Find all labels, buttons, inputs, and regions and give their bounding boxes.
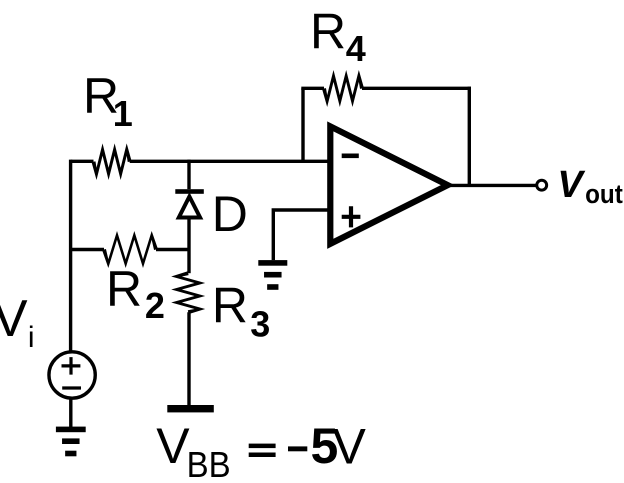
output terminal circle — [537, 180, 547, 190]
VBB supply bar — [167, 405, 214, 412]
label R2 — [106, 261, 165, 326]
wire output — [447, 184, 537, 187]
wire R4 branch left vertical — [301, 88, 304, 161]
svg-text:3: 3 — [250, 304, 270, 345]
svg-text:V: V — [0, 290, 28, 348]
wire diode branch vertical top — [187, 160, 190, 190]
wire Vi source to ground — [69, 398, 72, 427]
op-amp U1 triangle — [330, 126, 447, 243]
svg-text:R: R — [310, 3, 346, 59]
svg-text:V: V — [156, 418, 190, 474]
svg-text:1: 1 — [113, 93, 133, 134]
svg-text:BB: BB — [187, 444, 231, 483]
svg-text:R: R — [106, 261, 142, 317]
label Vout — [557, 164, 622, 209]
voltage source minus sign — [62, 386, 81, 389]
svg-text:V: V — [333, 418, 367, 474]
wire R2 row horizontal — [71, 248, 189, 251]
resistor R2 — [102, 231, 158, 268]
diode D cathode bar — [175, 189, 204, 194]
svg-text:V: V — [557, 164, 585, 206]
resistor R3 vertical — [171, 271, 205, 314]
op-amp plus input symbol — [342, 206, 361, 227]
wire diode to R3 — [187, 220, 190, 274]
label VBB = -5V — [156, 418, 366, 483]
svg-text:D: D — [212, 186, 248, 242]
wire main horizontal from Vi branch to op-amp minus input — [71, 160, 331, 163]
svg-text:2: 2 — [145, 285, 165, 326]
wire R4 top horizontal left — [301, 87, 324, 90]
svg-text:i: i — [28, 321, 35, 354]
diode D triangle — [179, 197, 200, 218]
wire plus input — [273, 210, 330, 260]
resistor R4 — [322, 70, 364, 107]
op-amp minus input symbol — [342, 154, 359, 159]
resistor R1 — [92, 143, 132, 180]
wire R4 top horizontal right — [362, 87, 471, 90]
label R3 — [212, 277, 270, 344]
voltage source Vi circle — [49, 352, 95, 398]
wire left vertical from node to Vi source — [69, 160, 72, 352]
svg-text:R: R — [212, 277, 248, 333]
svg-text:4: 4 — [346, 28, 366, 69]
voltage source plus sign — [62, 357, 81, 375]
wire R4 branch right vertical down to output — [468, 87, 471, 186]
ground at op-amp plus input — [258, 260, 287, 290]
label Vi — [0, 290, 35, 354]
label R4 — [310, 3, 366, 69]
label R1 — [83, 68, 133, 134]
wire R3 to VBB bar — [187, 312, 190, 405]
svg-text:out: out — [585, 179, 623, 209]
ground below Vi source — [56, 427, 86, 457]
